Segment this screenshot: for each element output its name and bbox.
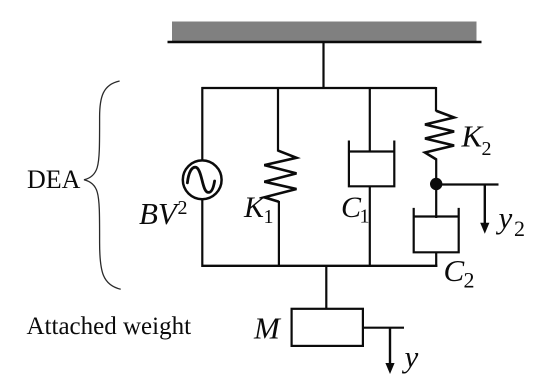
svg-text:1: 1 — [360, 206, 370, 228]
wire: C1 branch upper (rod) — [369, 87, 371, 152]
svg-text:BV: BV — [139, 196, 180, 231]
wire: K1 branch lower — [278, 201, 280, 267]
arrow y2 stem — [484, 185, 486, 225]
arrow y head — [385, 363, 394, 374]
wire: bottom rail to mass — [325, 266, 327, 310]
wire: left branch lower — [201, 199, 203, 268]
svg-text:2: 2 — [514, 216, 525, 241]
wire: K1 branch upper — [277, 87, 279, 152]
svg-text:1: 1 — [264, 206, 274, 228]
svg-text:C: C — [444, 253, 465, 288]
wire: mass to y reference — [363, 327, 404, 329]
svg-text:2: 2 — [178, 197, 188, 219]
wire: left branch upper — [201, 87, 203, 161]
voltage source sine wave — [187, 167, 214, 192]
wire: bottom rail — [202, 265, 438, 267]
wire: node to C2 piston (rod) — [435, 184, 437, 218]
voltage source BV^2 circle — [183, 160, 222, 199]
arrow y2 head — [480, 223, 489, 234]
damper C1 cup — [349, 141, 394, 187]
svg-text:2: 2 — [464, 268, 475, 293]
wire: support to top rail — [322, 42, 324, 89]
wire: right branch upper — [435, 87, 437, 112]
spring K2 — [425, 111, 454, 160]
wire: spring K2 to node — [435, 159, 437, 191]
arrow y stem — [389, 328, 391, 365]
node between K2 and C2 — [430, 178, 442, 190]
damper C2 piston — [414, 215, 459, 217]
svg-text:y: y — [496, 200, 513, 235]
damper C2 cup — [414, 208, 459, 252]
brace DEA — [84, 81, 121, 289]
svg-text:2: 2 — [482, 138, 492, 160]
fixed support bar (gray) — [172, 22, 477, 42]
mass M box — [292, 309, 363, 346]
svg-text:DEA: DEA — [27, 165, 81, 194]
svg-text:Attached weight: Attached weight — [27, 313, 192, 340]
wire: node to y2 reference — [436, 183, 498, 185]
wire: top rail — [202, 87, 437, 89]
wire: C1 branch lower (rod) — [369, 186, 371, 267]
fixed support base line — [168, 41, 482, 44]
damper C1 piston — [349, 150, 394, 152]
spring K1 — [264, 151, 296, 202]
svg-text:M: M — [253, 311, 282, 346]
wire: C2 to bottom rail (rod) — [435, 252, 437, 267]
svg-text:y: y — [402, 339, 419, 374]
